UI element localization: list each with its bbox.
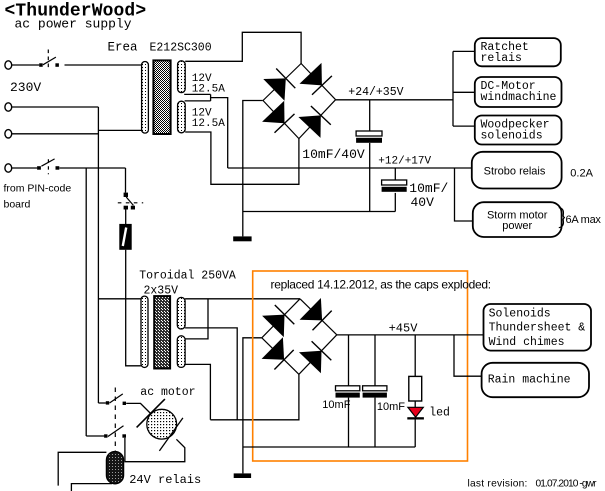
relay coil 24V relais <box>106 452 123 484</box>
capacitor C1 10mF/40V plates <box>356 131 382 143</box>
transformer TR2 core <box>154 296 170 368</box>
terminal J4 <box>5 164 12 172</box>
transformer TR1 core <box>153 60 170 134</box>
diode BR1a <box>263 69 295 101</box>
transformer TR2 secondary winding 2 <box>177 336 185 368</box>
wire +24V rail to capacitor C1 <box>369 100 371 131</box>
wire S2 to relay contact column <box>60 167 126 169</box>
relay actuator dashed link <box>114 388 116 452</box>
svg-text:12.5A: 12.5A <box>192 118 225 130</box>
branch column to loads <box>452 51 454 126</box>
svg-text:led: led <box>429 406 450 419</box>
wire C1 minus down <box>369 143 371 212</box>
wire C4 minus down <box>374 398 376 447</box>
diode BR1c <box>262 101 294 133</box>
svg-text:+24/+35V: +24/+35V <box>348 86 403 99</box>
center tap to +12V rail elbow <box>211 98 228 168</box>
svg-text:Erea: Erea <box>108 41 139 55</box>
svg-text:40V: 40V <box>411 195 435 210</box>
wire relay coil bottom feed <box>71 484 112 491</box>
svg-text:Thundersheet &: Thundersheet & <box>489 322 586 335</box>
ac motor M1 <box>147 409 177 439</box>
wire relay coil top feed <box>58 452 106 485</box>
transformer TR1 secondary winding 1 (12V 12.5A) <box>178 61 186 93</box>
load box Storm motor power <box>473 202 562 237</box>
stub to DC-Motor windmachine <box>453 91 475 93</box>
load box Solenoids Thundersheet & Wind chimes <box>484 304 592 351</box>
wire C2 minus down <box>394 193 396 212</box>
svg-text:Toroidal 250VA: Toroidal 250VA <box>139 269 236 282</box>
diode BR2d <box>299 341 331 373</box>
svg-text:24V relais: 24V relais <box>129 473 201 487</box>
svg-text:+45V: +45V <box>389 321 419 335</box>
capacitor C4 10mF plates <box>363 386 387 398</box>
svg-text:board: board <box>4 199 31 211</box>
wire motor to contact K2 <box>125 438 185 462</box>
svg-text:10mF: 10mF <box>322 399 350 411</box>
wire down to relay contact K0 <box>125 168 127 193</box>
motor phase stroke lower-right <box>159 418 183 451</box>
svg-text:last revision:: last revision: <box>468 478 528 489</box>
diode BR2a <box>262 305 294 337</box>
bridge rectifier BR1 diamond outline <box>263 64 336 139</box>
svg-text:ac motor: ac motor <box>140 386 195 399</box>
svg-text:solenoids: solenoids <box>481 130 543 143</box>
wire +12V rail to Strobo relais <box>228 167 472 169</box>
transformer TR2 secondary winding 1 <box>177 297 185 329</box>
wire TR1 sec1 top to bridge BR1 AC1 <box>185 32 301 63</box>
orange highlight box (replaced caps) <box>253 271 468 461</box>
relay contact K2 <box>104 426 126 438</box>
wire TR2 sec1 bottom down <box>185 328 237 420</box>
transformer TR1 primary winding <box>142 62 149 134</box>
relay contact K0 <box>118 193 143 210</box>
capacitor C2 10mF/40V plates <box>382 180 407 192</box>
svg-text:power: power <box>502 220 532 232</box>
wire fuse to TR2 primary bottom <box>126 250 141 366</box>
branch to Storm motor power <box>455 168 473 221</box>
wire TR2 sec2 bottom down <box>185 364 210 419</box>
switch S1 (mains switch) <box>39 50 59 69</box>
led D9 <box>407 407 424 419</box>
relay contact K1 <box>106 394 126 405</box>
transformer TR1 secondary winding 2 (12V 12.5A) <box>178 101 186 133</box>
load box Ratchet relais <box>475 38 561 66</box>
wire rail to capacitor C3 <box>348 335 350 386</box>
brace at Storm motor power <box>559 208 565 228</box>
svg-text:230V: 230V <box>10 80 41 95</box>
branch to Rain machine <box>454 335 482 376</box>
svg-text:10mF/40V: 10mF/40V <box>302 147 365 162</box>
svg-text:Wind chimes: Wind chimes <box>489 336 565 349</box>
svg-text:ac power supply: ac power supply <box>15 17 132 32</box>
capacitor C3 10mF plates <box>336 386 360 398</box>
wire +45V rail to Solenoids box <box>337 334 484 336</box>
vertical neutral bus x=98 <box>97 107 99 403</box>
wire capacitor return to ground <box>243 211 395 213</box>
svg-text:from PIN-code: from PIN-code <box>4 183 72 195</box>
svg-text:6A max: 6A max <box>566 214 602 226</box>
diode BR1d <box>298 106 330 138</box>
wire R1 to led <box>414 401 416 407</box>
stub to Woodpecker solenoids <box>453 125 475 127</box>
wire TR1 sec2 bottom to bridge BR1 AC2 <box>185 132 299 184</box>
wire rail to resistor R1 <box>414 335 416 377</box>
wire S1 to TR1 primary top <box>65 64 142 66</box>
load box Woodpecker solenoids <box>475 116 562 145</box>
wire neutral bus to motor contact K1 <box>98 402 106 404</box>
wire J2 right <box>12 106 99 108</box>
ground symbol GND2 <box>234 473 251 478</box>
motor phase stroke upper-left <box>137 399 165 427</box>
diode BR2b <box>300 298 332 330</box>
svg-text:+12/+17V: +12/+17V <box>378 155 431 167</box>
wire C3 minus down <box>348 398 350 447</box>
resistor R1 <box>409 376 422 401</box>
wire TR2 sec2 top parallel link <box>185 299 208 339</box>
wire TR2 secondaries top to bridge BR2 AC1 <box>185 298 300 300</box>
wire led to bottom return <box>414 420 416 448</box>
ground symbol GND1 <box>233 236 251 241</box>
wire J3 right <box>12 133 99 135</box>
wire to TR1 primary bottom <box>98 129 141 131</box>
svg-text:relais: relais <box>481 52 522 65</box>
wire neutral bus to TR2 primary top <box>98 298 141 300</box>
wire +12V rail to capacitor C2 <box>394 168 396 180</box>
load box Rain machine <box>482 363 589 397</box>
terminal J1 <box>5 61 12 69</box>
wire BR1 minus to ground <box>243 101 263 237</box>
wire to motor contact K2 <box>86 435 104 437</box>
fuse F1 <box>119 224 131 250</box>
switch S2 (PIN-code enable) <box>37 159 59 174</box>
transformer TR2 primary winding <box>141 296 148 367</box>
svg-text:0.2A: 0.2A <box>570 167 593 179</box>
wire AC2 to bridge BR2 bottom <box>210 374 299 420</box>
svg-text:replaced 14.12.2012, as the ca: replaced 14.12.2012, as the caps explode… <box>271 278 491 292</box>
terminal J3 <box>5 130 12 138</box>
terminal J2 <box>5 103 12 111</box>
svg-text:12.5A: 12.5A <box>192 83 225 95</box>
diode BR2c <box>262 337 294 369</box>
wire branch down x=86 <box>85 168 87 436</box>
wire J1 to switch S1 <box>12 64 40 66</box>
load box DC-Motor windmachine <box>475 77 562 107</box>
wire +24V rail <box>336 99 453 101</box>
bridge rectifier BR2 diamond outline <box>262 299 337 375</box>
wire BR2 minus to ground <box>243 338 262 474</box>
svg-text:Rain machine: Rain machine <box>488 373 571 386</box>
wire J4 to switch S2 <box>12 167 38 169</box>
svg-text:Solenoids: Solenoids <box>489 308 551 321</box>
svg-text:10mF: 10mF <box>377 401 405 413</box>
svg-text:Strobo relais: Strobo relais <box>484 165 546 177</box>
svg-text:E212SC300: E212SC300 <box>150 42 212 55</box>
wire rail to capacitor C4 <box>374 335 376 386</box>
wire K1 to motor <box>126 403 151 414</box>
svg-text:01.07.2010 -gwr: 01.07.2010 -gwr <box>536 478 598 489</box>
wire K0 to fuse F1 <box>125 210 127 225</box>
svg-text:windmachine: windmachine <box>481 91 557 104</box>
center tap wires TR1 <box>184 93 210 95</box>
stub to Ratchet relais <box>453 50 475 52</box>
bottom return wire to ground <box>243 446 415 448</box>
diode BR1b <box>300 63 332 95</box>
svg-text:10mF/: 10mF/ <box>409 181 448 196</box>
load box Strobo relais <box>472 152 562 189</box>
